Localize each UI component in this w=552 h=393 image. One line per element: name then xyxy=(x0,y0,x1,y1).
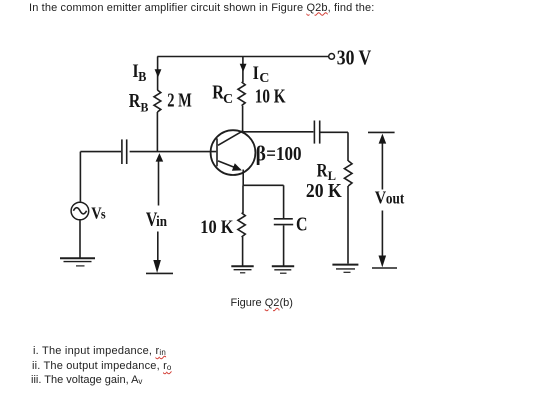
transistor Q1 base bar xyxy=(216,138,218,166)
question list xyxy=(33,345,166,357)
measurement arrow Vout bottom arrowhead xyxy=(379,256,387,268)
measurement arrow Vin upper line xyxy=(158,162,160,206)
capacitor output coupling (two vertical plates) xyxy=(314,121,319,144)
measurement arrow Vin bottom arrowhead xyxy=(153,260,161,273)
svg-text:C: C xyxy=(223,92,233,107)
wire top supply rail xyxy=(157,56,328,58)
ground (under 10K) xyxy=(231,266,253,273)
resistor RB 2M (zigzag) xyxy=(154,90,161,112)
svg-text:B: B xyxy=(138,69,146,84)
resistor RC 10K (zigzag) xyxy=(238,82,245,106)
wire RC branch lower lead (to collector) xyxy=(242,106,244,131)
label RB xyxy=(129,91,149,115)
title text xyxy=(29,2,374,14)
svg-text:s: s xyxy=(101,207,106,222)
label RL xyxy=(317,160,337,183)
wire base input right segment xyxy=(130,151,217,153)
svg-text:C: C xyxy=(259,71,269,86)
svg-text:B: B xyxy=(141,100,149,115)
svg-text:β: β xyxy=(256,141,266,165)
measurement arrow Vin lower line xyxy=(157,232,159,261)
svg-text:R: R xyxy=(129,91,141,112)
svg-text:2 M: 2 M xyxy=(167,91,192,112)
label Vin xyxy=(146,210,168,231)
svg-text:R: R xyxy=(317,160,328,181)
label RC xyxy=(212,83,233,108)
measurement bar Vout top xyxy=(368,131,395,133)
terminal node 30V (open circle) xyxy=(329,54,335,60)
transistor Q1 emitter arrowhead xyxy=(232,163,242,170)
svg-text:I: I xyxy=(253,63,259,84)
measurement arrow Vout top arrowhead xyxy=(379,134,387,144)
ground (under C) xyxy=(272,266,294,273)
capacitor input coupling (two vertical plates) xyxy=(122,139,127,164)
svg-text:10 K: 10 K xyxy=(255,87,286,108)
svg-text:in: in xyxy=(156,214,167,230)
wire Vs branch lower xyxy=(79,220,81,258)
resistor RL 20K (zigzag) xyxy=(344,161,352,186)
label Vout xyxy=(375,188,405,208)
wire RC branch upper lead xyxy=(242,57,244,83)
wire emitter lead down xyxy=(242,170,244,186)
svg-text:C: C xyxy=(296,214,308,235)
current arrow IC xyxy=(240,64,247,72)
wire Vs branch upper xyxy=(79,152,81,202)
wire base input left segment xyxy=(80,151,121,153)
transistor Q1 emitter stroke xyxy=(218,161,241,170)
current arrow IB xyxy=(155,69,162,77)
wire bypass cap upper lead xyxy=(283,185,285,218)
resistor 10K emitter (zigzag) xyxy=(238,213,245,237)
label IB xyxy=(132,61,146,84)
reference bar Vin xyxy=(146,272,173,274)
wire output cap to RL branch xyxy=(321,131,349,133)
svg-text:30 V: 30 V xyxy=(337,45,372,69)
wire RL branch lower lead xyxy=(347,186,349,264)
svg-text:=100: =100 xyxy=(266,144,301,165)
reference bar Vout bottom xyxy=(372,267,397,269)
source Vs (sine source circle) xyxy=(71,202,89,220)
wire bypass cap lower lead xyxy=(283,226,285,266)
measurement arrow Vout lower line xyxy=(381,211,383,256)
measurement arrow Vin top arrowhead xyxy=(156,153,164,162)
measurement arrow Vout upper line xyxy=(381,144,383,190)
wire RL branch upper lead xyxy=(347,132,349,161)
svg-text:10 K: 10 K xyxy=(200,218,234,238)
wire 10K lower lead xyxy=(242,237,244,266)
svg-text:out: out xyxy=(386,191,405,208)
transistor Q1 collector stroke xyxy=(218,131,243,146)
wire RB branch lower lead xyxy=(156,112,158,152)
wire RB branch upper lead xyxy=(157,57,159,91)
svg-text:20 K: 20 K xyxy=(306,181,343,202)
svg-text:V: V xyxy=(375,188,386,208)
wire emitter junction to bypass cap xyxy=(243,184,283,186)
figure caption xyxy=(231,297,293,309)
wire emitter down to 10K xyxy=(242,185,244,213)
label Vs xyxy=(91,203,106,222)
label IC xyxy=(253,63,270,86)
ground (under RL) xyxy=(332,265,358,273)
capacitor C bypass (two horizontal plates) xyxy=(274,219,293,225)
transistor Q1 (circle) xyxy=(211,130,256,175)
ground (under Vs) xyxy=(60,258,95,266)
wire collector out segment xyxy=(243,131,313,133)
